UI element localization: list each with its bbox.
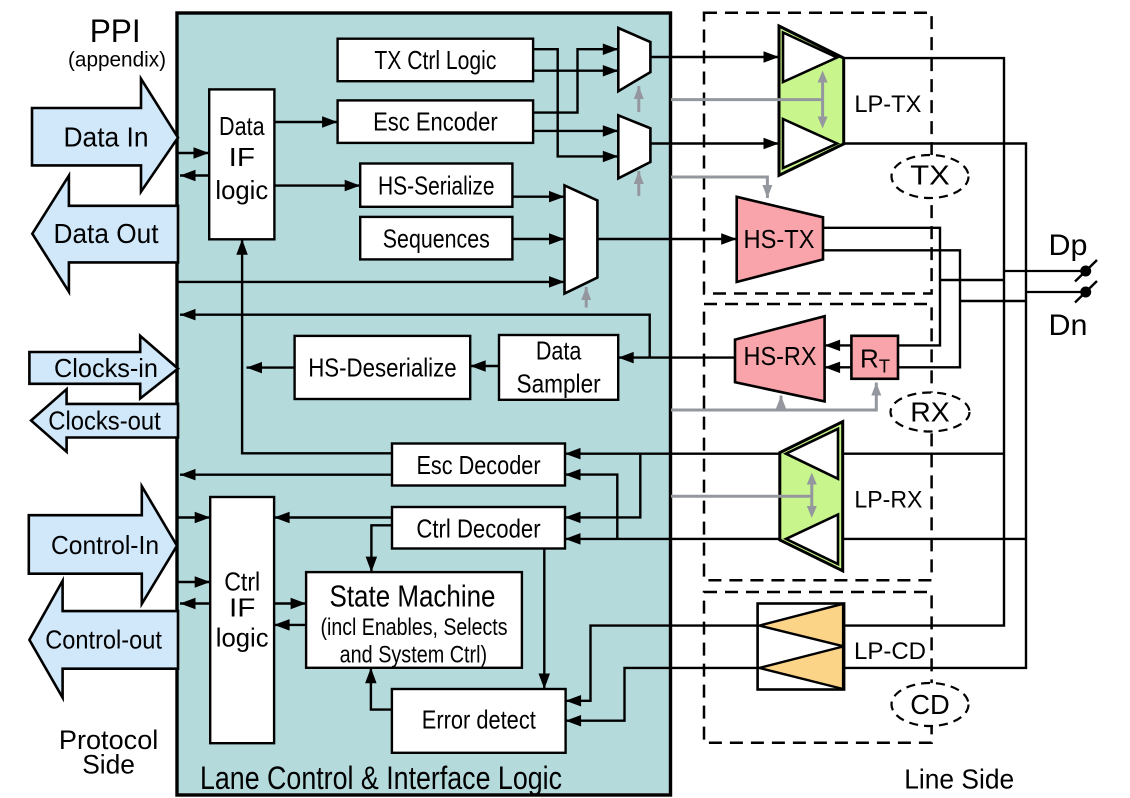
- wire PPI direct to mux M3: [178, 281, 565, 283]
- svg-text:HS-Serialize: HS-Serialize: [378, 171, 495, 201]
- wire RT to HS-RX in1: [825, 344, 852, 346]
- svg-text:Control-out: Control-out: [45, 625, 162, 655]
- wire Data IF to HS-Serialize: [274, 184, 360, 186]
- svg-text:Side: Side: [82, 750, 135, 780]
- wire Data IF to Esc Encoder: [274, 121, 337, 123]
- svg-text:Clocks-out: Clocks-out: [48, 406, 161, 436]
- LP-RX receiver top (triangle): [786, 429, 838, 479]
- svg-text:HS-TX: HS-TX: [744, 224, 815, 254]
- wire mux M2 to LP-TX bottom: [650, 142, 779, 144]
- wire Esc Decoder to PPI (out): [180, 474, 392, 476]
- lane control block (teal): [177, 13, 671, 795]
- arrow Data In: [32, 79, 178, 192]
- ellipse TX: [892, 155, 969, 198]
- ellipse RX: [891, 393, 970, 432]
- wire Sequences to mux M3: [512, 238, 564, 240]
- wire HS-TX bottom branch to Dn line: [960, 300, 1026, 302]
- wire RT to HS-RX in2: [825, 366, 852, 368]
- block Esc Encoder: [338, 100, 533, 142]
- svg-text:Dp: Dp: [1049, 229, 1088, 262]
- LP-TX driver bottom (triangle): [783, 119, 837, 168]
- net Dp branch to LP-RX top: [843, 453, 1004, 455]
- svg-text:Esc Encoder: Esc Encoder: [373, 107, 498, 137]
- block Esc Decoder: [392, 444, 565, 486]
- svg-text:Lane Control & Interface Logic: Lane Control & Interface Logic: [200, 760, 562, 796]
- wire LP-CD top out to Error detect: [566, 626, 760, 701]
- wire LP-RX bottom out to Ctrl Decoder: [565, 538, 780, 540]
- wire HS-TX out top to RT/line: [823, 228, 940, 346]
- HS-RX (pink trapezoid): [735, 316, 825, 401]
- wire TX Ctrl Logic out1 to mux M2: [533, 49, 618, 156]
- gray ctrl to LP-TX: [671, 98, 823, 101]
- svg-text:CD: CD: [910, 689, 950, 720]
- gray select stub mux M3: [585, 287, 588, 308]
- gray select stub mux M2: [637, 171, 640, 196]
- svg-text:logic: logic: [215, 175, 268, 205]
- svg-text:Data: Data: [536, 336, 582, 366]
- wire mux M3 to HS-TX: [597, 238, 736, 240]
- svg-text:PPI: PPI: [90, 13, 141, 49]
- svg-text:Data: Data: [219, 111, 265, 141]
- block TX Ctrl Logic: [338, 39, 533, 81]
- gray ctrl to HS-TX enable: [671, 177, 767, 198]
- arrow Control-out: [29, 581, 178, 698]
- wire HS-TX out bottom to RT/line: [823, 250, 960, 367]
- svg-text:TX Ctrl Logic: TX Ctrl Logic: [374, 45, 496, 75]
- wire Ctrl IF to State Machine: [274, 602, 306, 604]
- block Ctrl Decoder: [392, 507, 565, 549]
- svg-text:IF: IF: [229, 142, 255, 172]
- svg-text:Sequences: Sequences: [383, 224, 490, 254]
- svg-text:Esc Decoder: Esc Decoder: [416, 450, 540, 480]
- wire Data IF to PPI (out): [180, 174, 209, 176]
- RT termination (pink): [851, 336, 898, 379]
- svg-text:Dn: Dn: [1049, 309, 1088, 342]
- svg-text:Error detect: Error detect: [422, 705, 537, 735]
- block Data IF logic: [209, 89, 274, 239]
- wire Esc Encoder out1 to mux M1: [533, 49, 618, 112]
- wire branch to Ctrl Decoder in1: [565, 454, 640, 518]
- net Dn branch to LP-RX bottom: [843, 538, 1026, 540]
- LP-TX driver top (triangle): [783, 33, 837, 83]
- arrow Control-In: [29, 486, 177, 604]
- svg-text:Data In: Data In: [64, 122, 149, 153]
- LP-RX swap arrow (gray): [810, 478, 813, 513]
- pad Dp (dot): [1080, 266, 1091, 277]
- LP-TX body (green): [779, 26, 844, 175]
- block Error detect: [392, 689, 566, 753]
- block HS-Serialize: [360, 164, 512, 207]
- wire Ctrl Decoder to State Machine: [371, 525, 392, 572]
- wire Esc Decoder up to Data IF: [242, 239, 392, 453]
- LP-CD comparator top (orange triangle): [759, 604, 843, 646]
- svg-text:Line Side: Line Side: [904, 764, 1014, 795]
- wire PPI to Data IF (in): [178, 152, 209, 154]
- arrow Data Out: [32, 176, 178, 292]
- dashed box TX section: [704, 13, 932, 294]
- wire State Machine to Ctrl IF: [274, 624, 306, 626]
- block Sequences: [360, 217, 512, 260]
- wire TX Ctrl Logic out2 to mux M1: [533, 69, 618, 71]
- svg-text:and System Ctrl): and System Ctrl): [340, 642, 488, 669]
- net Dp: LP-TX top out via line to LP-CD: [843, 58, 1004, 626]
- LP-TX swap arrow (gray): [821, 76, 824, 123]
- wire Ctrl Decoder to Ctrl IF: [274, 516, 392, 518]
- svg-text:logic: logic: [216, 623, 269, 653]
- svg-text:Ctrl Decoder: Ctrl Decoder: [416, 514, 540, 544]
- LP-CD body (white): [758, 604, 845, 690]
- mux M2 (LP-TX path): [618, 115, 650, 178]
- dashed box CD section: [704, 592, 932, 743]
- svg-text:Control-In: Control-In: [51, 530, 159, 560]
- wire HS-RX branch to PPI Data Out: [180, 315, 650, 358]
- block State Machine: [306, 572, 522, 668]
- pad Dn (dot): [1080, 287, 1091, 298]
- svg-text:(incl Enables, Selects: (incl Enables, Selects: [321, 614, 508, 641]
- wire Data Sampler to HS-Deserialize: [470, 365, 499, 367]
- wire HS-RX out to Data Sampler: [618, 356, 735, 358]
- LP-RX body (green): [780, 422, 843, 571]
- wire PPI to Ctrl IF in1: [178, 516, 210, 518]
- wire HS-Deserialize out to node: [247, 366, 295, 368]
- wire Esc Encoder out2 to mux M2: [533, 130, 618, 132]
- net Dn stub to pad: [1026, 291, 1086, 293]
- wire Error detect to State Machine: [371, 668, 392, 710]
- gray ctrl to RT enable: [671, 383, 876, 411]
- arrow Clocks-out: [31, 389, 178, 452]
- net Dp stub to pad: [1004, 270, 1086, 272]
- svg-text:LP-RX: LP-RX: [854, 487, 922, 514]
- wire LP-CD bottom out to Error detect: [566, 668, 760, 721]
- wire LP-RX top out to Esc Decoder: [565, 453, 780, 455]
- block Ctrl IF logic: [210, 497, 274, 743]
- svg-text:HS-Deserialize: HS-Deserialize: [308, 353, 456, 383]
- svg-text:Sampler: Sampler: [517, 369, 601, 399]
- svg-text:RX: RX: [910, 397, 950, 428]
- gray branch to HS-RX enable: [780, 396, 783, 411]
- LP-CD comparator bottom (orange triangle): [759, 647, 843, 690]
- gray ctrl to LP-RX: [671, 495, 812, 498]
- block HS-Deserialize: [295, 336, 471, 399]
- svg-text:TX: TX: [910, 160, 950, 191]
- mux M1 (LP-TX path): [618, 28, 650, 91]
- wire Ctrl IF to PPI (out): [180, 602, 210, 604]
- HS-TX (pink trapezoid): [737, 197, 823, 282]
- wire Ctrl Decoder to Error detect: [543, 549, 545, 690]
- wire HS-TX top branch to Dp line: [940, 279, 1004, 281]
- dashed box RX section: [704, 304, 932, 580]
- svg-text:Data Out: Data Out: [54, 218, 159, 249]
- net Dn: LP-TX bottom out via line to LP-CD: [843, 144, 1026, 668]
- svg-text:(appendix): (appendix): [68, 49, 166, 72]
- mux M3 (HS-TX path): [565, 185, 598, 293]
- wire HS-Serialize to mux M3: [512, 195, 564, 197]
- svg-text:Clocks-in: Clocks-in: [54, 353, 158, 383]
- gray select stub mux M1: [637, 86, 640, 112]
- wire mux M1 to LP-TX top: [650, 56, 779, 58]
- arrow Clocks-in: [29, 336, 178, 399]
- svg-text:IF: IF: [229, 593, 255, 623]
- block Data Sampler: [499, 335, 618, 400]
- svg-text:LP-CD: LP-CD: [854, 638, 926, 665]
- wire branch to Esc Decoder in2: [565, 475, 617, 539]
- svg-text:HS-RX: HS-RX: [744, 341, 817, 371]
- ellipse CD: [892, 683, 969, 726]
- wire PPI to Ctrl IF in2: [178, 581, 210, 583]
- LP-RX receiver bottom (triangle): [786, 515, 838, 565]
- svg-text:State Machine: State Machine: [330, 579, 496, 614]
- svg-text:LP-TX: LP-TX: [854, 91, 921, 118]
